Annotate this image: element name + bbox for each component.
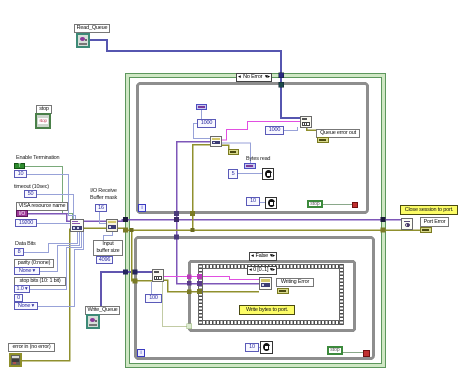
Queue error out terminal badge: [317, 137, 329, 143]
constant 1000 b: [265, 126, 284, 135]
wait ms icon a: [262, 168, 274, 180]
Read_Queue label: [74, 24, 110, 33]
constant 10 bottom loop: [245, 343, 259, 352]
conditional terminal loop2: [363, 350, 370, 357]
wire: string pink top: [222, 122, 300, 141]
Bytes read terminal badge: [244, 163, 256, 169]
sequence selector: [247, 266, 277, 275]
constant 16: [95, 204, 107, 212]
VISA Read node: [210, 136, 222, 147]
Port Error label: [420, 217, 449, 227]
VISA Write node: [259, 277, 272, 290]
iteration terminal i loop2: [137, 349, 145, 357]
error in cluster constant: [9, 353, 22, 367]
constant 10 top loop: [246, 197, 260, 206]
VISA Set IO Buffer Size node: [106, 219, 118, 232]
Input buffer size label: [93, 240, 123, 256]
wire: 10 const: [24, 175, 76, 220]
wire: error branch down to dequeue: [132, 230, 153, 281]
wire: 1000b to enqueue: [279, 127, 298, 131]
wire: 19200: [34, 223, 70, 225]
wire: 1000a to VISA Read: [194, 124, 211, 139]
wire: dequeue timed-out boolean to case selector: [163, 282, 188, 327]
wire: 8 data bits: [21, 232, 78, 253]
wire: Read_Queue queue refnum: [90, 40, 300, 118]
wire: stop bits 1.0: [28, 232, 82, 290]
wait ms icon b: [265, 197, 277, 209]
sequence structure checkered border top: [198, 264, 344, 269]
Bytes read text: [246, 156, 270, 163]
tunnel: olive on seq left: [197, 290, 202, 295]
boolean constant T: [14, 163, 25, 169]
constant 5: [228, 169, 238, 179]
constant 8: [14, 248, 24, 256]
tunnel squares over seq border: [197, 274, 202, 279]
parity ring None: [14, 267, 40, 275]
enqueue node: [300, 116, 312, 128]
wire: string pink bottom: [164, 277, 259, 280]
tunnel: olive on green left: [123, 228, 128, 233]
Writing Error terminal badge: [277, 288, 289, 294]
wire: 16 to node2: [100, 212, 107, 224]
wire: VISA purple main horizontal: [84, 220, 106, 222]
Writing Error label: [276, 278, 314, 287]
tunnel: pink on case left: [187, 275, 192, 280]
error badge near VISA Read: [228, 149, 239, 155]
wire: dequeue error to VISA Write: [164, 280, 259, 292]
wire: VISA const: [28, 214, 70, 222]
case selector False: [249, 252, 277, 261]
wire: error branch up to VISA Read: [193, 145, 211, 231]
wire: 10 to wait (bottom loop): [256, 347, 260, 349]
stop local variable loop2: [327, 346, 343, 355]
tunnel: pink on seq left: [197, 275, 202, 280]
wire: VISA Read error out stub: [222, 145, 229, 150]
Enable Termination text: [16, 155, 59, 162]
Data Bits text: [15, 241, 36, 248]
conditional terminal loop1: [352, 202, 358, 208]
tunnel: queue wire on loop1 top: [279, 82, 284, 87]
wire: 10 to wait (top loop): [256, 202, 265, 204]
tunnel: purple on loop1 bottom: [174, 211, 179, 216]
sequence structure checkered border right: [339, 264, 344, 325]
while loop 1 (top) gray border: [138, 84, 368, 213]
tunnel: olive on loop2 left: [133, 279, 138, 284]
I/O Receive Buffer mask text: [90, 188, 117, 202]
stop bits ring 1.0: [14, 285, 30, 293]
sequence structure checkered border bottom: [198, 320, 344, 325]
wait ms icon c: [260, 341, 273, 354]
stop bits label: [14, 277, 66, 286]
flow control ring None: [14, 302, 38, 310]
case selector terminal: [187, 324, 192, 329]
Read_Queue subVI icon: [76, 33, 90, 48]
junction on error wire at x133: [130, 228, 134, 232]
timeout text: [14, 184, 49, 191]
constant 4096: [96, 256, 113, 264]
wire: error olive main horizontal: [84, 227, 106, 229]
constant 50: [24, 190, 37, 198]
tunnel: olive on case left: [187, 290, 192, 295]
parity label: [14, 259, 54, 268]
error in label: [8, 343, 55, 352]
wire: VISA branch vertical: [176, 142, 178, 284]
wire: 5 to wait: [235, 173, 262, 175]
sequence structure checkered border left: [198, 264, 203, 325]
wire: 4096 to node2: [104, 232, 113, 256]
wire: stop1 to cond terminal: [323, 204, 352, 206]
Write_Queue subVI icon: [86, 314, 100, 329]
tunnel: writeq on green left: [123, 270, 128, 275]
tunnel: purple on green right: [381, 217, 386, 222]
case selector No Error: [236, 73, 272, 82]
wire: stop2 to cond terminal: [343, 352, 363, 354]
case structure False border: [190, 262, 355, 331]
tunnel: olive on loop1 bottom: [190, 211, 195, 216]
wire: TF enable termination: [25, 167, 73, 220]
stop local variable icon: [35, 113, 51, 129]
wire: 100 to dequeue: [151, 282, 153, 294]
VISA Configure Serial Port node: [70, 219, 84, 232]
tunnel: writeq on loop2 left: [133, 270, 138, 275]
VISA resource constant: [16, 210, 28, 217]
tunnel: purple on green left: [123, 217, 128, 222]
dequeue node: [152, 269, 164, 282]
outer green structure frame: [126, 74, 386, 368]
tunnel: olive on green right: [381, 228, 386, 233]
junction on VISA wire: [174, 217, 179, 222]
Close session to port label: [400, 205, 458, 215]
VISA resource name label: [16, 202, 68, 211]
stop local variable loop1: [307, 200, 323, 208]
constant 1000 a: [197, 119, 216, 128]
iteration terminal i loop1: [138, 204, 146, 212]
property badge top: [196, 104, 207, 110]
constant 0: [14, 294, 23, 302]
constant 10: [14, 170, 27, 178]
Port Error terminal badge: [420, 227, 432, 233]
Write bytes to port label: [239, 305, 295, 315]
wire: enqueue error out: [307, 127, 319, 138]
tunnel: queue wire on green top: [279, 73, 284, 78]
Write_Queue label: [85, 306, 120, 315]
wire: Write_Queue queue refnum: [101, 272, 153, 315]
wire: parity None: [38, 232, 80, 272]
while loop 2 (bottom) gray border: [136, 238, 374, 359]
wire: badge to 1000a: [201, 110, 203, 119]
tunnel: purple on loop2 top: [174, 235, 179, 240]
stop local variable label: [36, 105, 52, 114]
wire: 50 const: [34, 195, 74, 220]
Queue error out label: [316, 129, 360, 138]
wire: error in (no error): [22, 229, 72, 361]
wire: bytes read count: [222, 143, 251, 163]
wire: flow control None: [36, 232, 84, 307]
constant 19200: [15, 219, 37, 227]
tunnel: purple on case left: [187, 281, 192, 286]
junction on error wire at x193: [191, 228, 195, 232]
tunnel: purple on seq left: [197, 281, 202, 286]
VISA Close node: [401, 218, 413, 230]
constant 100: [145, 294, 162, 303]
